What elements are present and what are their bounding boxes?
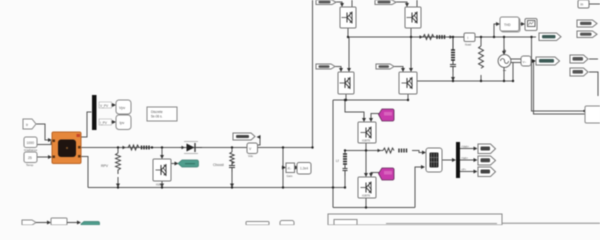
constant block 2 (temperature) [24,152,37,167]
wire leg1 midpoint down [348,37,350,71]
svg-text:RPV: RPV [101,164,109,168]
wire grid source top [503,37,505,54]
wire irradiance tag elbow [36,124,51,140]
svg-text:<Vab>: <Vab> [461,145,469,149]
resistor load R vertical x481 [479,46,484,68]
wire grid source bottom [503,67,505,81]
block bottom middle [246,222,269,226]
PWM generator tag 2 magenta [379,168,395,180]
node junction dots [117,36,586,209]
svg-text:Vdc: Vdc [248,154,254,158]
bus creator bar lower [456,142,460,178]
diode D1 boost [180,142,202,154]
svg-text:<P>: <P> [461,168,466,172]
svg-text:Gain: Gain [287,174,293,178]
wire lower subsystem line [502,222,600,224]
svg-text:Iload: Iload [465,43,472,47]
goto tag R1 [577,20,597,27]
block right edge [585,106,600,123]
wire leg2 midpoint down [410,37,412,71]
wire return riser x415 to measurement in2 [415,167,424,208]
wire y81 riser x513 [512,62,514,81]
wire lower bus y100 [333,99,408,101]
svg-text:1000: 1000 [27,141,35,145]
svg-text:V_PV: V_PV [100,104,109,108]
From tag g2 [375,0,396,5]
display bottom middle [280,221,294,226]
wire bridge lower output y81 [416,80,513,82]
From tag irradiance [23,119,36,129]
PV array block [52,132,81,164]
wire LC filter branch x345 top [344,151,346,154]
goto tag R3 [570,55,588,63]
AC voltage source grid [498,49,511,71]
wire source to RMS block lower [510,62,521,64]
resistor RPV vertical [116,153,121,174]
svg-text:THD: THD [504,23,511,27]
voltage measurement Vdc block [247,143,258,158]
wire PV measurement m out [81,112,92,137]
PWM generator tag 1 magenta [379,109,395,121]
wire to IGBT-A collector [345,100,364,121]
wire block to teal goto [67,222,80,224]
wire LC filter branch x345 bottom [344,176,346,188]
wire gate g2 from tag [396,2,407,6]
wire load branch RLC bottom [452,72,454,80]
wire RPV branch top [117,148,119,154]
svg-text:I_PV: I_PV [100,121,108,125]
wire PV+ main DC wire y147.5 [81,147,313,149]
scope tag P [478,167,496,177]
wire IGBT2 collector [416,0,418,7]
svg-text:Cboost: Cboost [213,163,224,167]
goto block Vpv [116,100,131,114]
svg-text:25: 25 [28,156,32,160]
inductor LC filter branch x345 [343,154,348,176]
Fcn block [500,17,520,32]
wire IGBT-B emitter [365,198,367,208]
display block [297,163,311,175]
wire input const2 to PV [37,156,51,158]
inductor Lboost coil [142,146,150,150]
wire PWM1 tag to IGBT-A gate [371,114,379,122]
scope block top [525,19,537,31]
wire RMS out to goto tag [531,60,535,62]
From tag g3 [316,64,335,69]
constant block 1 (irradiance) [24,137,38,152]
wire tap to gain [283,167,285,169]
wire IGBT-A emitter [365,143,367,150]
From tag g1 [316,0,336,5]
goto tag R4 [570,68,588,76]
wire load branch top RLC x453 [452,37,454,49]
wire boost IGBT m to teal goto [171,163,178,165]
label V_PV [99,102,115,108]
wire bottom return y207.5 [333,207,415,209]
transistor IGBT-B lower inverter [358,177,376,198]
scope tag Vab [478,144,496,154]
svg-text:IGBT5: IGBT5 [362,139,371,143]
svg-text:IGBT: IGBT [156,183,163,187]
scope tag Iab [478,156,496,165]
wire Cboost branch top [231,148,233,153]
svg-text:V~: V~ [523,60,527,64]
wire half-bridge mid y150 [345,150,383,152]
label I_PV [99,119,115,125]
wire bus out 2 [460,159,477,161]
svg-text:Lf: Lf [336,159,339,163]
wire input const1 to PV [37,141,51,145]
wire Vdc meas to goto tag [257,137,260,145]
wire RPV branch bottom [117,177,119,187]
wire measurement bus drop 1 [532,37,586,111]
small block top right corner [578,0,589,8]
wire Cboost branch bottom [231,172,233,187]
wire mid to measurement in1 [412,151,425,153]
wire bus out 1 [460,148,477,150]
wire PWM2 tag to IGBT-B gate [371,173,379,177]
svg-text:5e-06 s.: 5e-06 s. [151,115,163,119]
powergui block [147,107,177,121]
wire gate g3 from tag [335,67,341,72]
bus selector bar PV measurements [92,95,97,130]
wire IGBT4 emitter [407,94,409,100]
wire IGBT1 collector [351,0,353,7]
transistor IGBT boost [153,159,171,187]
transistor IGBT1 [340,7,356,28]
goto tag teal (boost gate) [178,160,199,167]
goto block Ipv [116,115,131,130]
wire source to RMS block upper [510,58,521,60]
resistor series RL main (boost inductor) [122,145,139,150]
transistor IGBT4 [399,72,417,94]
goto tag THD out [539,33,561,41]
wire bus out 3 [460,171,477,173]
svg-text:Ipv: Ipv [120,121,125,125]
wire IGBT3 emitter [345,94,347,100]
VI measurement block lower inverter [426,148,442,172]
wire gate g4 from tag [394,67,403,72]
svg-text:1.2e4: 1.2e4 [300,167,308,171]
wire tag to block bottom [36,222,50,224]
wire measurement out to bus bar [442,159,455,161]
wire bridge output bus y37 [348,36,536,38]
inductor load branch LC x453 [450,37,456,72]
wire boost IGBT top [161,148,163,159]
current measurement block top wire [464,33,475,47]
resistor series RL top (filter) [419,35,452,40]
svg-text:Irradiance: Irradiance [24,148,38,152]
goto tag teal bottom [81,222,100,226]
wire load R branch bottom [480,75,482,81]
wire Fcn to scope [519,23,524,25]
svg-text:Discrete: Discrete [151,110,163,114]
wire left return x333 [332,100,334,208]
goto tag Vdc [233,133,255,140]
wire corner block out [589,3,600,5]
transistor IGBT-A lower inverter [358,122,376,143]
goto tag R2 [577,31,597,38]
wire DC link cap branch x283 [282,148,284,188]
resistor series RL lower inverter [378,148,394,153]
transistor IGBT3 [338,72,354,94]
wire PV- down [81,157,88,188]
svg-text:<Iab>: <Iab> [461,156,469,160]
wire measurement bus drop 2 [534,61,586,114]
wire IGBT-B collector [365,151,367,177]
svg-text:Vpv: Vpv [119,106,125,110]
wire IGBT1 emitter [347,28,349,37]
inductor L filter top coil [437,35,445,39]
svg-text:IGBT6: IGBT6 [362,194,371,198]
svg-text:in: in [581,3,584,7]
wire IGBT2 emitter [410,28,412,37]
wire DC+ rail drop x312 [312,0,314,148]
wire boost IGBT bottom [161,181,163,187]
wire tagR3 out [589,58,598,60]
wire bottom rail y187.5 [88,187,345,189]
wire tagR4 out [589,72,598,96]
goto tag Vgrid [536,57,560,65]
svg-text:-K-: -K- [287,167,291,171]
gain block [286,163,295,178]
From tag g4 [376,64,394,69]
subsystem rectangle bottom [328,214,502,225]
RMS measurement small block [521,56,531,66]
wire gain to display [294,167,298,169]
wire load R branch top [480,37,482,46]
svg-text:Temp: Temp [26,163,34,167]
wire gate g1 from tag [336,2,342,6]
inductor coil lower inverter [399,149,407,153]
transistor IGBT2 [405,7,421,28]
From tag bottom left [22,220,36,225]
wire to Fcn block [494,24,499,37]
capacitor Cboost branch [229,152,235,172]
block bottom left [51,218,67,225]
